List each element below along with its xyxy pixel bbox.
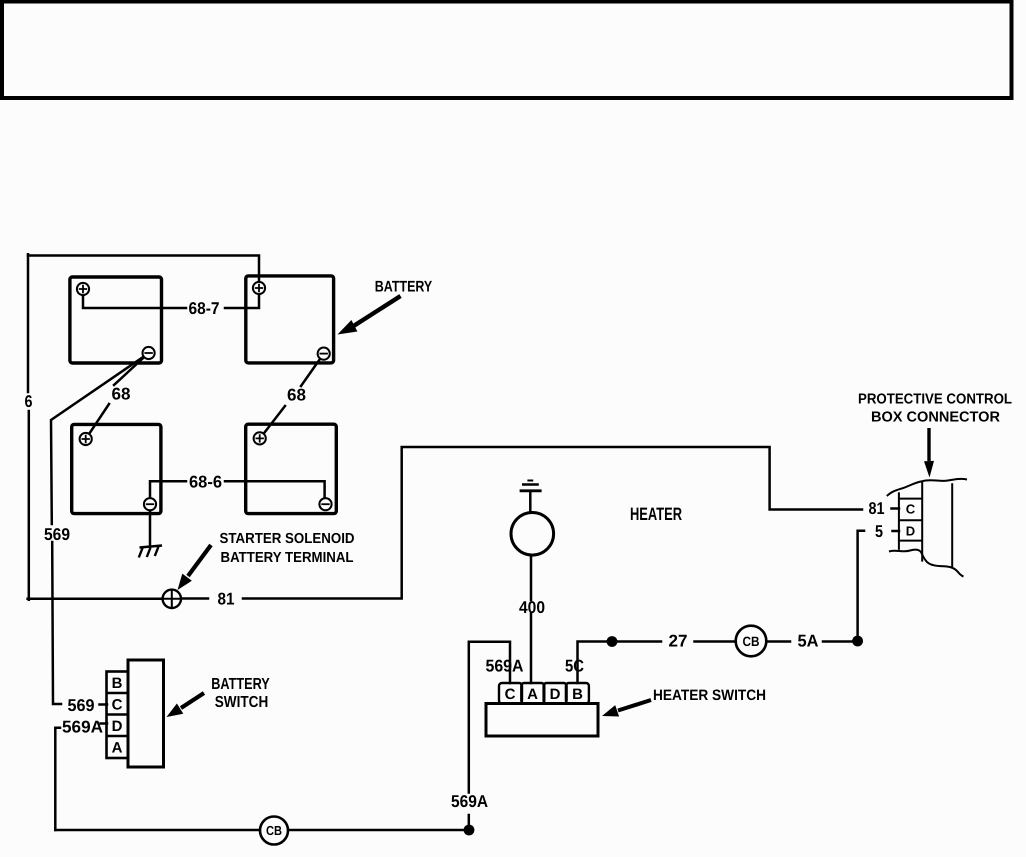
svg-text:C: C	[112, 697, 123, 714]
svg-text:5C: 5C	[565, 657, 584, 676]
svg-text:CB: CB	[743, 634, 760, 649]
svg-text:A: A	[527, 686, 538, 703]
svg-text:B: B	[112, 675, 123, 692]
svg-text:569A: 569A	[451, 792, 488, 811]
svg-text:BATTERY: BATTERY	[375, 279, 433, 296]
svg-text:400: 400	[519, 598, 545, 617]
svg-text:CB: CB	[266, 823, 282, 838]
svg-text:B: B	[572, 686, 583, 703]
svg-text:569: 569	[44, 525, 70, 544]
svg-text:D: D	[906, 524, 915, 539]
svg-text:569A: 569A	[486, 657, 524, 676]
svg-text:STARTER SOLENOID: STARTER SOLENOID	[220, 531, 355, 547]
svg-text:569A: 569A	[62, 718, 103, 737]
svg-text:6: 6	[25, 392, 33, 411]
svg-text:A: A	[112, 740, 123, 757]
svg-text:D: D	[550, 686, 561, 703]
svg-text:PROTECTIVE CONTROL: PROTECTIVE CONTROL	[858, 391, 1012, 407]
svg-text:C: C	[505, 686, 516, 703]
svg-text:BOX CONNECTOR: BOX CONNECTOR	[871, 409, 1001, 425]
svg-text:27: 27	[669, 632, 688, 651]
svg-text:81: 81	[869, 499, 885, 518]
svg-text:5: 5	[875, 522, 883, 541]
svg-text:SWITCH: SWITCH	[215, 694, 269, 711]
svg-text:68: 68	[112, 385, 131, 404]
svg-text:569: 569	[68, 696, 95, 715]
svg-text:HEATER: HEATER	[630, 504, 682, 524]
svg-text:68-7: 68-7	[189, 299, 220, 318]
svg-text:HEATER SWITCH: HEATER SWITCH	[653, 687, 766, 704]
svg-text:BATTERY: BATTERY	[211, 676, 270, 693]
svg-text:68-6: 68-6	[189, 473, 222, 492]
svg-text:5A: 5A	[798, 632, 819, 651]
svg-text:C: C	[906, 502, 916, 517]
svg-text:68: 68	[287, 386, 306, 405]
svg-text:81: 81	[218, 590, 235, 609]
svg-text:D: D	[112, 718, 123, 735]
svg-text:BATTERY TERMINAL: BATTERY TERMINAL	[221, 550, 354, 566]
